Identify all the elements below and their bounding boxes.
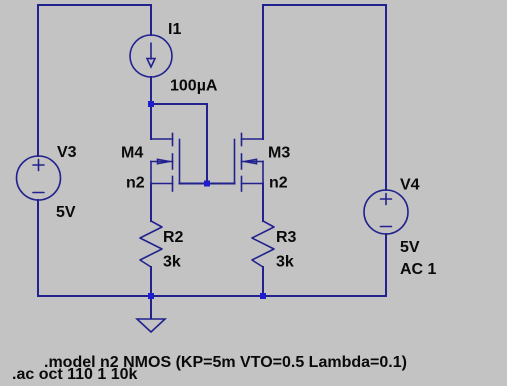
svg-text:R3: R3: [276, 229, 297, 246]
wire top-left rail: [38, 4, 151, 6]
svg-text:V3: V3: [57, 144, 77, 161]
wire left rail top (V3 top to top-left corner): [37, 5, 39, 156]
node junction below I1: [148, 101, 154, 107]
wire R2 bottom lead: [150, 267, 152, 296]
node junction R2/ground: [148, 293, 154, 299]
svg-text:3k: 3k: [163, 254, 181, 271]
wire V4 bottom lead: [385, 234, 387, 296]
wire M3 drain lead up: [262, 5, 264, 139]
wire left rail bottom (V3 bottom to rail): [37, 200, 39, 296]
wire R3 bottom lead: [262, 267, 264, 296]
resistor R2: [140, 221, 162, 267]
svg-text:M3: M3: [268, 145, 290, 162]
wire I1 bottom lead to node: [150, 77, 152, 104]
svg-text:I1: I1: [168, 21, 181, 38]
node junction gates: [204, 181, 210, 187]
ground: [137, 319, 165, 332]
wire bottom rail: [38, 295, 386, 297]
svg-text:100µA: 100µA: [170, 78, 218, 95]
svg-text:3k: 3k: [276, 254, 294, 271]
svg-text:n2: n2: [126, 175, 145, 192]
svg-text:n2: n2: [269, 175, 288, 192]
svg-text:5V: 5V: [56, 204, 76, 221]
wire I1 top lead: [150, 5, 152, 35]
wire node to M3 gate: [207, 183, 235, 185]
wire V4 top lead: [385, 5, 387, 190]
node junction R3/rail: [260, 293, 266, 299]
svg-text:M4: M4: [121, 145, 143, 162]
wire M3 source down to R3: [262, 184, 264, 222]
wire M4 source down to R2: [150, 184, 152, 222]
resistor R3: [252, 221, 274, 267]
transistor M4 (NMOS, mirrored: leads left, gate bar right): [151, 134, 180, 192]
wire middle column vertical (drain-gate tie): [206, 104, 208, 184]
wire top-right rail: [263, 4, 386, 6]
wire ground stem: [150, 296, 152, 318]
wire node to middle column horizontal: [151, 103, 207, 105]
svg-text:R2: R2: [163, 229, 184, 246]
svg-text:.ac oct 110 1 10k: .ac oct 110 1 10k: [12, 366, 138, 383]
svg-text:AC 1: AC 1: [400, 261, 437, 278]
svg-text:V4: V4: [400, 177, 420, 194]
transistor M3 (NMOS: leads right, gate bar left): [235, 134, 264, 192]
wire M4 drain lead vertical: [150, 104, 152, 139]
svg-text:5V: 5V: [400, 239, 420, 256]
voltage source V4: [364, 190, 408, 234]
voltage source V3: [17, 156, 61, 200]
current source I1: [130, 35, 172, 77]
wire M4 gate to node: [180, 183, 208, 185]
